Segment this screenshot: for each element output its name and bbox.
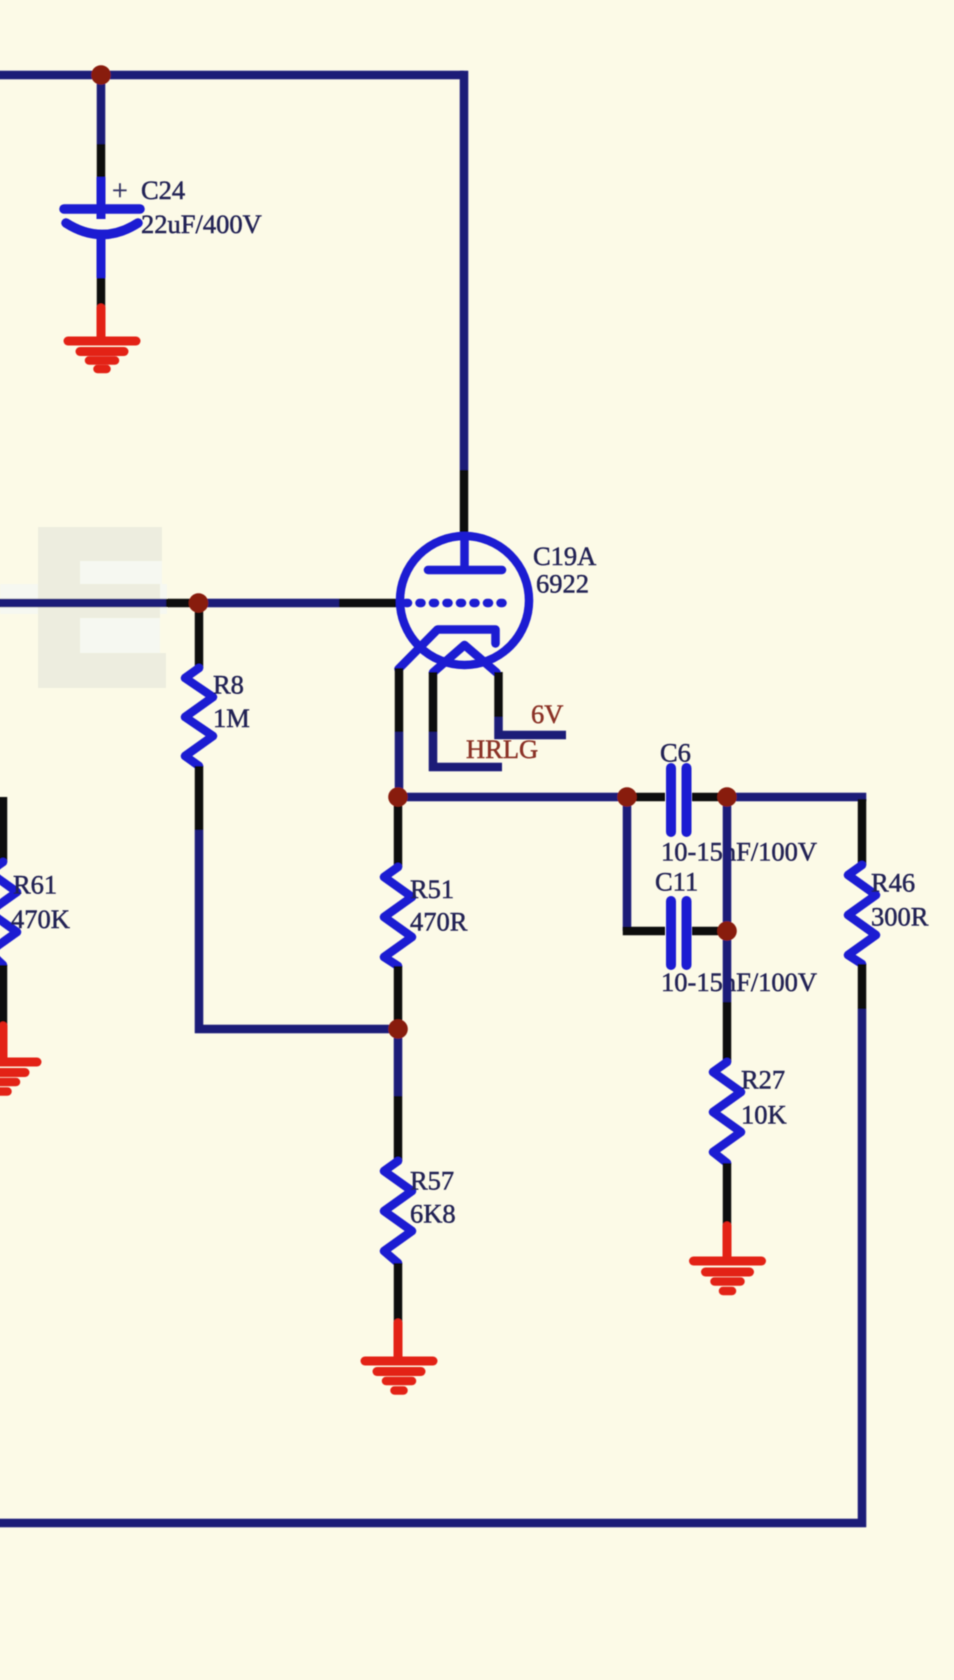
capacitor C24 (polarized) (64, 177, 140, 278)
wire: grid net black segment (166, 599, 199, 608)
wire: R57 top pin black (394, 1096, 403, 1161)
wire: R51 bottom pin black (394, 966, 403, 1029)
ground (R61) (0, 1026, 37, 1092)
triode plate lead (460, 536, 469, 570)
wire: R57 top navy (394, 1029, 403, 1096)
resistor R57 (384, 1161, 412, 1263)
wire: R27 bottom pin black (723, 1163, 732, 1226)
junction node at C24 tap (91, 65, 111, 85)
wire: cathode pin black (395, 668, 404, 732)
wire: C24 bottom pin black (97, 278, 106, 308)
wire: heater right pin black (494, 672, 503, 717)
svg-text:C24: C24 (141, 175, 185, 205)
wire: C24 top pin black (97, 144, 106, 177)
wire: R27 top pin black (723, 1002, 732, 1062)
wire: C11 loop left drop (navy) (623, 797, 632, 931)
svg-text:6K8: 6K8 (410, 1199, 456, 1229)
wire: R46 bottom pin black (858, 964, 867, 1009)
svg-text:C19A: C19A (533, 541, 596, 571)
wire: cathode net navy (395, 732, 404, 797)
wire: top B+ horizontal net (0, 71, 464, 80)
ground (R27) (694, 1226, 762, 1291)
wire: heater left pin black (429, 672, 438, 732)
wire: C11 left pin black (623, 927, 665, 936)
triode heater (433, 645, 497, 673)
triode cathode (399, 630, 496, 670)
resistor R46 (848, 865, 876, 964)
svg-text:+: + (112, 176, 128, 207)
wire: R61 top pin black (0, 797, 7, 862)
triode C19A (6922) envelope (400, 536, 529, 665)
svg-text:R46: R46 (871, 868, 915, 898)
wire: cathode output net navy (398, 793, 627, 802)
wire: grid net navy segment to tube (199, 599, 339, 608)
triode plate bar (428, 566, 502, 575)
capacitor C6 (671, 768, 687, 832)
svg-text:6922: 6922 (536, 569, 589, 599)
wire: C11 right pin black (692, 927, 727, 936)
junction node at C6 right (717, 787, 737, 807)
svg-text:R57: R57 (410, 1166, 454, 1196)
ground (C24) (68, 308, 136, 369)
triode grid (dotted) (406, 599, 514, 608)
svg-text:22uF/400V: 22uF/400V (141, 209, 262, 239)
wire: R57 bottom pin black (394, 1263, 403, 1323)
svg-text:C6: C6 (660, 738, 691, 768)
svg-text:470R: 470R (410, 907, 468, 937)
wire: vertical net through C11 right (navy) (723, 797, 732, 1002)
wire: R51 top pin black (394, 797, 403, 867)
net HRLG wire (navy) (433, 732, 502, 767)
resistor R51 (384, 867, 412, 966)
wire: bottom return net navy (0, 1009, 862, 1523)
net 6V wire (navy) (499, 717, 567, 735)
resistor R27 (713, 1062, 741, 1163)
svg-text:10-15nF/100V: 10-15nF/100V (661, 837, 817, 867)
svg-text:R51: R51 (410, 874, 454, 904)
junction node at cathode / R51 (388, 787, 408, 807)
wire: R8 bottom pin black (195, 766, 204, 830)
wire: plate pin stub (black) (460, 470, 469, 537)
junction node at C11 right (717, 921, 737, 941)
wire: C6 right pin black (692, 793, 727, 802)
ground (R57) (365, 1323, 433, 1391)
wire: grid pin stub black (339, 599, 402, 608)
svg-text:R27: R27 (741, 1065, 785, 1095)
svg-text:300R: 300R (871, 902, 929, 932)
junction node at R51/R57 (388, 1019, 408, 1039)
capacitor C11 (671, 901, 687, 965)
svg-text:1M: 1M (213, 703, 250, 733)
wire: R61 bottom pin black (0, 965, 7, 1026)
svg-text:6V: 6V (531, 699, 563, 729)
wire: R8 top pin black (195, 603, 204, 668)
resistor R8 (185, 668, 213, 766)
wire: grid input net (navy, left edge) (0, 599, 166, 608)
junction node at R8 top (189, 593, 209, 613)
wire: net to R46 navy (727, 793, 866, 802)
svg-text:C11: C11 (655, 867, 698, 897)
svg-text:R8: R8 (213, 670, 244, 700)
wire: R8 to cathode-divider net (navy L) (199, 830, 398, 1029)
wire: C24 branch navy (97, 75, 106, 144)
svg-text:470K: 470K (11, 904, 70, 934)
junction node at C6 left (617, 787, 637, 807)
wire: right vertical to plate (navy) (460, 71, 469, 470)
wire: R46 top pin black (858, 799, 867, 865)
svg-text:R61: R61 (13, 870, 57, 900)
wire: C6 left pin black (627, 793, 665, 802)
resistor R61 (0, 862, 17, 965)
svg-text:10-15nF/100V: 10-15nF/100V (661, 967, 817, 997)
svg-text:10K: 10K (741, 1100, 787, 1130)
